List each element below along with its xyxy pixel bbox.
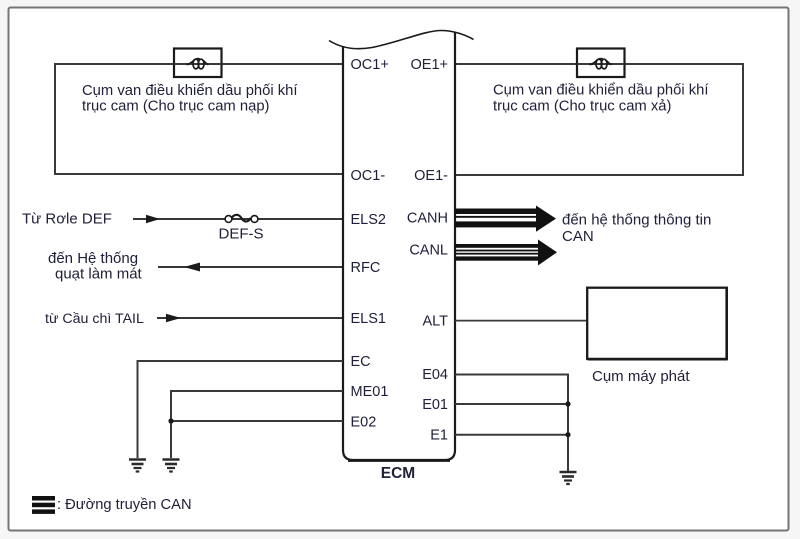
label đến Hệ thống quạt làm mát bbox=[48, 250, 143, 283]
svg-text:OE1-: OE1- bbox=[414, 168, 448, 184]
wire E1 joining E04 net bbox=[455, 434, 568, 436]
solenoid coil box L (intake OCV) bbox=[174, 49, 222, 78]
label đến hệ thống thông tin CAN bbox=[562, 212, 711, 246]
label intake OCV text bbox=[82, 83, 298, 115]
svg-text:OE1+: OE1+ bbox=[411, 57, 448, 73]
junction E02/ME01 bbox=[168, 418, 173, 423]
ground G2 (ME01/E02) bbox=[163, 460, 180, 472]
svg-text:EC: EC bbox=[351, 354, 371, 370]
junction E1 bbox=[565, 432, 570, 437]
svg-text:trục cam (Cho trục cam xả): trục cam (Cho trục cam xả) bbox=[493, 99, 671, 115]
svg-text:ALT: ALT bbox=[422, 314, 448, 330]
wire E01 joining E04 net bbox=[455, 403, 568, 405]
junction E01 bbox=[565, 401, 570, 406]
solenoid coil box R (exhaust OCV) bbox=[577, 49, 625, 78]
wire E02 joining ME01 net bbox=[171, 420, 343, 422]
ground G1 (EC) bbox=[129, 460, 146, 472]
svg-text:ELS1: ELS1 bbox=[351, 311, 386, 327]
coil glyph L1 bbox=[187, 59, 209, 69]
svg-text:: Đường truyền CAN: : Đường truyền CAN bbox=[57, 497, 192, 513]
ECM bottom thick edge bbox=[348, 459, 450, 462]
legend CAN bus symbol bbox=[32, 496, 55, 514]
ECM top break wavy line bbox=[329, 31, 474, 49]
label exhaust OCV text bbox=[493, 83, 709, 115]
svg-text:OC1-: OC1- bbox=[351, 168, 386, 184]
svg-text:RFC: RFC bbox=[351, 260, 381, 276]
svg-text:đến Hệ thống: đến Hệ thống bbox=[48, 250, 138, 267]
svg-text:trục cam (Cho trục cam nạp): trục cam (Cho trục cam nạp) bbox=[82, 99, 270, 115]
coil glyph L2 bbox=[590, 59, 612, 69]
ECM box U1 bbox=[343, 32, 455, 460]
wire ALT to generator bbox=[455, 320, 587, 322]
svg-text:Cụm van điều khiển dầu phối kh: Cụm van điều khiển dầu phối khí bbox=[493, 83, 709, 99]
arrow right on ELS2 wire bbox=[146, 215, 160, 224]
wire EC to ground bbox=[138, 361, 344, 458]
wire ME01 to ground bbox=[171, 391, 343, 458]
CAN bus arrow CANH bbox=[455, 206, 556, 232]
svg-text:E04: E04 bbox=[422, 367, 448, 383]
fuse DEF-S bbox=[225, 215, 258, 223]
wire OC1+ loop (camshaft timing oil control valve intake) bbox=[55, 64, 343, 174]
svg-text:E02: E02 bbox=[351, 415, 377, 431]
CAN bus arrow CANL bbox=[455, 240, 557, 266]
wire RFC to cooling fan system bbox=[158, 266, 343, 268]
wire OE1+ loop (camshaft timing oil control valve exhaust) bbox=[455, 64, 743, 175]
svg-text:CANH: CANH bbox=[407, 211, 448, 227]
svg-text:OC1+: OC1+ bbox=[351, 57, 389, 73]
arrow left on RFC wire bbox=[184, 263, 200, 272]
wire E04 to ground bbox=[455, 375, 568, 472]
svg-text:Từ Rơle DEF: Từ Rơle DEF bbox=[22, 211, 112, 228]
svg-text:từ Cầu chì TAIL: từ Cầu chì TAIL bbox=[45, 311, 144, 327]
svg-text:ELS2: ELS2 bbox=[351, 212, 386, 228]
ground G3 (E04/E01/E1) bbox=[560, 472, 577, 484]
svg-text:CAN: CAN bbox=[562, 228, 594, 245]
svg-text:E01: E01 bbox=[422, 397, 448, 413]
wire ELS2 from DEF relay bbox=[133, 218, 343, 220]
wire ELS1 from TAIL fuse bbox=[157, 317, 343, 319]
svg-text:Cụm van điều khiển dầu phối kh: Cụm van điều khiển dầu phối khí bbox=[82, 83, 298, 99]
svg-text:E1: E1 bbox=[430, 428, 448, 444]
svg-text:quạt làm mát: quạt làm mát bbox=[55, 266, 143, 283]
generator box (Cụm máy phát) bbox=[587, 288, 727, 360]
svg-text:ME01: ME01 bbox=[351, 384, 389, 400]
arrow right on ELS1 wire bbox=[166, 314, 181, 323]
svg-text:ECM: ECM bbox=[381, 465, 415, 482]
svg-text:DEF-S: DEF-S bbox=[219, 226, 264, 243]
svg-text:CANL: CANL bbox=[409, 243, 448, 259]
svg-text:đến hệ thống thông tin: đến hệ thống thông tin bbox=[562, 212, 711, 229]
svg-text:Cụm máy phát: Cụm máy phát bbox=[592, 368, 690, 385]
